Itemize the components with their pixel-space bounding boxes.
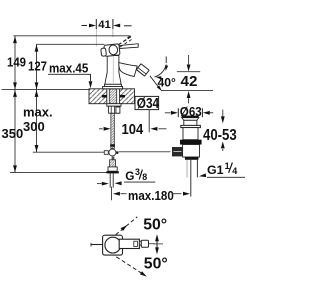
dimension 104 right extension: [148, 110, 150, 133]
drain cap: [182, 118, 199, 121]
top view: lever bar: [119, 239, 139, 248]
G1 1/4 leader underline: [207, 176, 245, 178]
dimension 41 right extension bar: [112, 19, 114, 29]
dimension 41 left arrow: [89, 24, 96, 28]
outlet angle axis arrowhead: [157, 85, 163, 92]
angle 40 text: [158, 76, 177, 90]
deck cut bar left: [102, 95, 107, 98]
dimension 149 text: [7, 55, 26, 70]
dimension 42 line top: [188, 55, 190, 64]
drain flange: [180, 140, 202, 145]
dimension max.180: [111, 187, 113, 201]
supply nipple: [110, 160, 116, 167]
top view: swing double arrow: [156, 237, 158, 253]
dimension 41 left extension bar: [95, 19, 97, 29]
cartridge hub: [100, 44, 120, 57]
top view: swing dashed upper: [116, 217, 138, 235]
dimension 41 right arrow: [113, 24, 120, 28]
svg-text:max.: max.: [23, 104, 53, 119]
drain tailpiece: [190, 160, 192, 197]
dimension max.300 line: [36, 90, 38, 153]
dimension max.300 text max: [23, 104, 53, 119]
popup rod horizontal: [119, 151, 171, 153]
dimension max.45 text: [49, 61, 89, 76]
svg-text:3: 3: [135, 167, 140, 177]
dimension 350 line: [14, 90, 16, 173]
extension line 350 bottom: [10, 172, 108, 174]
svg-text:Ø34: Ø34: [137, 95, 160, 112]
dimension 41 left extension faint: [95, 29, 97, 47]
dimension 42 line bottom: [187, 91, 191, 98]
extension line rim level right: [161, 90, 213, 92]
dimension max.45 down arrow: [89, 81, 93, 88]
faucet base plinth: [105, 84, 122, 86]
dimension max.45 underline leader: [48, 74, 91, 81]
dimension 42 text: [181, 73, 198, 90]
spout arm: [119, 63, 137, 77]
hole dia label box Ø34: [135, 96, 159, 109]
svg-text:max.45: max.45: [49, 61, 89, 76]
lever handle raised dashed: [118, 37, 130, 45]
dimension 104 right arrow: [150, 127, 157, 131]
aerator: [136, 64, 149, 76]
supply nut: [108, 167, 117, 171]
drain neck: [184, 120, 197, 125]
svg-text:G: G: [125, 169, 134, 183]
G3/8 underline: [124, 181, 155, 183]
rod ball joint: [104, 151, 108, 155]
dimension 41 text: [98, 19, 111, 31]
svg-text:41: 41: [98, 19, 111, 31]
rod taper below ball: [112, 157, 115, 160]
outlet angle axis line: [150, 76, 160, 89]
svg-text:127: 127: [28, 59, 47, 74]
supply: threaded pull rod: [111, 113, 114, 148]
deck cut bar right: [120, 95, 125, 98]
angle 40 arc: [155, 65, 167, 77]
top view: body circle: [105, 237, 121, 253]
drain ring: [181, 125, 201, 127]
rod dark band: [110, 144, 115, 146]
mounting deck hatched: [89, 88, 135, 104]
drain side port: [172, 147, 183, 156]
svg-text:8: 8: [142, 172, 147, 182]
G1 1/4 label: [207, 163, 224, 177]
dimension 104 line left: [99, 128, 103, 130]
hub front bump: [101, 48, 107, 56]
svg-text:149: 149: [7, 55, 26, 70]
angle 40 vertical stub: [165, 56, 167, 63]
dimension 127 line: [36, 44, 38, 89]
svg-text:40°: 40°: [158, 76, 177, 90]
svg-text:max.180: max.180: [128, 188, 174, 203]
top view: lever end cap: [141, 240, 148, 247]
faucet body and base: [105, 56, 121, 85]
G3/8 label: [125, 169, 134, 183]
drain divider: [185, 157, 199, 160]
lever handle solid: [119, 44, 138, 49]
extension line max300 bottom: [33, 151, 106, 153]
svg-text:50°: 50°: [144, 256, 168, 273]
dimension 127 text: [28, 59, 47, 74]
supply tube G3/8: [110, 173, 113, 187]
top view: swing dashed lower: [116, 257, 142, 274]
drain body: [183, 128, 198, 140]
angle 50 bottom text: [144, 256, 168, 273]
extension line 127 level: [37, 43, 105, 45]
extension line deck level left: [2, 89, 90, 91]
G3/8 thread arrows: [97, 183, 102, 185]
svg-text:300: 300: [23, 119, 45, 134]
svg-text:40-53: 40-53: [203, 127, 237, 144]
dimension 41 dash right: [124, 25, 132, 27]
dimension 104 text: [122, 121, 144, 137]
svg-text:G1: G1: [207, 163, 224, 177]
drain lower body: [183, 145, 200, 158]
dimension 149 line: [14, 36, 16, 90]
faucet base lip: [103, 87, 123, 89]
raised lever tip tick: [127, 35, 131, 39]
top view: axis line: [149, 243, 156, 245]
svg-text:4: 4: [232, 166, 237, 176]
svg-text:104: 104: [122, 121, 144, 137]
threaded shank through deck: [109, 89, 116, 104]
angle 50 top text: [143, 216, 167, 233]
dimension O63: [165, 112, 171, 114]
svg-text:42: 42: [181, 73, 198, 90]
dimension max.300 text 300: [23, 119, 45, 134]
hub dome: [109, 45, 118, 56]
extension line aerator level: [177, 71, 200, 73]
extension line 149 level: [14, 35, 130, 37]
dimension 41 dash left: [82, 25, 88, 27]
svg-text:1: 1: [225, 161, 230, 171]
mounting nut: [109, 106, 120, 113]
top view: lever neck: [139, 241, 141, 245]
washer under deck: [107, 104, 121, 107]
top view: popup rod stub: [91, 244, 102, 246]
svg-text:50°: 50°: [143, 216, 167, 233]
dimension 40-53: [222, 110, 224, 117]
top view: faucet body square: [103, 235, 123, 255]
svg-text:350: 350: [2, 126, 24, 141]
faucet body inner line: [112, 57, 114, 84]
dimension 350 text: [2, 126, 24, 141]
